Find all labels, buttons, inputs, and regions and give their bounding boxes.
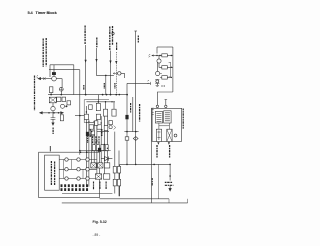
wire R2 to bus	[51, 91, 61, 95]
wire row1	[154, 55, 162, 57]
contact row 2 wire	[59, 168, 96, 170]
resistor R2	[49, 87, 53, 93]
page title	[28, 10, 57, 15]
wire Q1 emitter drop	[61, 79, 63, 87]
wire relay stub 2	[165, 100, 168, 106]
bus right horizontal H8	[120, 163, 170, 165]
switch box X2	[98, 163, 103, 168]
wire V158 drop	[158, 164, 160, 198]
resistor pair boxes top	[113, 166, 116, 173]
timer IC label	[51, 161, 54, 185]
wire Q2 top	[52, 103, 54, 107]
node AC input marks	[37, 75, 38, 78]
relay contact box 1	[156, 129, 161, 141]
component small box on Va lower	[125, 137, 129, 140]
tick above timer box	[49, 146, 51, 151]
contact row 1 wire	[59, 159, 96, 161]
resistor R1 above Q1	[52, 72, 56, 75]
junction dot link	[79, 115, 81, 117]
junction dots row1	[156, 55, 172, 56]
label below arrow	[52, 128, 54, 135]
relay contact 2 marks	[167, 129, 172, 141]
relay bottom arrows	[157, 142, 170, 145]
resistor pair box top b	[117, 166, 120, 173]
node tick 1TB top	[134, 30, 137, 32]
junction dot row wire	[79, 150, 81, 152]
resistor pair box bottom b	[117, 179, 120, 186]
component box 3	[91, 131, 94, 136]
transistor Q2	[51, 106, 55, 110]
wire cluster link	[75, 115, 84, 117]
ground dots	[161, 85, 164, 86]
wire Q4 right	[160, 74, 162, 78]
top right circuit: top wire	[157, 46, 173, 48]
wire input horizontal	[40, 78, 52, 80]
wire row1 right	[167, 55, 173, 57]
wire to Q3	[158, 56, 160, 59]
wire R11 right	[167, 66, 173, 68]
test point circle TP1	[118, 72, 121, 75]
cluster labels	[90, 130, 99, 145]
resistor row above timer box r1	[92, 145, 95, 151]
wire trigger drop	[110, 51, 112, 95]
arrow on green led wire	[95, 59, 97, 62]
resistor pair boxes bottom	[113, 179, 116, 186]
wire hook to relay box	[157, 92, 173, 105]
wire test drop dashed	[115, 52, 117, 95]
extra cluster dots	[88, 121, 108, 149]
connector pins row 1	[61, 184, 89, 187]
resistor row r3	[101, 145, 104, 151]
resistor R11	[162, 66, 168, 69]
label at 1TB top	[137, 36, 139, 43]
wire H8 left drop	[119, 164, 121, 196]
relay box edge ticks	[152, 110, 154, 115]
wire TP1 right	[121, 73, 125, 78]
label TIMER SW	[169, 145, 171, 158]
switch X on input wire	[43, 77, 46, 80]
junction dot GY	[169, 175, 171, 177]
wire D2 leads	[101, 158, 112, 160]
node label GREEN LED	[96, 38, 98, 48]
bottom wire L4	[62, 193, 112, 195]
middle cluster resistor Rd	[84, 114, 88, 119]
relay contact box 2	[167, 129, 172, 141]
switch box X1	[91, 163, 96, 168]
capacitor C1 plates	[155, 79, 159, 83]
wire top box left vertical	[49, 65, 51, 77]
bottom long line L3	[62, 202, 188, 204]
component on Va	[125, 115, 128, 119]
wire Vb vertical	[132, 97, 134, 132]
relay contact 1 marks	[157, 131, 160, 141]
node marks right feed end	[148, 80, 151, 85]
wire R12 right	[167, 76, 171, 78]
arrow row1	[151, 55, 153, 57]
extra junction dots cluster	[86, 101, 115, 124]
wire C2 down	[52, 119, 54, 124]
switch X SW1	[49, 97, 56, 103]
wire TP1 left arrow	[113, 73, 117, 75]
bottom wire L2	[100, 198, 170, 200]
middle cluster resistor Re	[96, 114, 100, 119]
page number	[93, 233, 101, 237]
arrowed line left mid	[40, 112, 64, 114]
wire cluster stub a	[97, 95, 99, 104]
wire cluster stub c	[113, 102, 115, 109]
wire 1TB vertical	[135, 31, 137, 164]
switch X2 cross	[98, 163, 103, 168]
component diamond on 1TB line	[133, 137, 138, 141]
capacitor C1	[156, 80, 159, 83]
right pair wires	[115, 132, 119, 197]
component small C	[67, 101, 71, 105]
middle cluster resistor Rb	[103, 109, 107, 116]
junction dot bend	[105, 75, 107, 77]
wire upper horizontal	[49, 69, 80, 71]
resistor R12	[162, 76, 168, 79]
transistor Q4	[156, 71, 160, 75]
diode D2	[105, 157, 109, 161]
connector pins row 2	[61, 188, 89, 191]
junction dots right column	[171, 67, 172, 79]
node label TRIGGER PULSE	[110, 26, 113, 50]
junction dots on main bus	[50, 94, 128, 96]
wire cluster mid link	[86, 121, 97, 123]
wire right edge vertical V6	[172, 47, 174, 92]
bus main horizontal	[48, 94, 128, 96]
switch X1 cross	[91, 163, 96, 168]
relay box	[152, 108, 182, 141]
figure caption	[93, 220, 107, 224]
relay inner coil 1	[155, 112, 162, 124]
wire bend to Va	[105, 75, 107, 94]
label relay right	[182, 109, 184, 130]
wire Q3 to R11	[159, 63, 162, 67]
switch box X3	[104, 163, 109, 168]
switch box X4	[95, 174, 101, 179]
wire top box right vertical	[73, 65, 75, 95]
arrow on trigger wire	[109, 61, 111, 64]
contact row 3 circles	[65, 177, 89, 180]
switch X4 cross	[95, 174, 101, 179]
node label CONSTANT VOLTAGE	[84, 26, 86, 45]
label TB 12V	[139, 104, 141, 122]
arrow left end	[40, 112, 43, 114]
transistor Q1	[52, 76, 57, 81]
contact row 2 circles	[65, 168, 89, 171]
component pair box B	[62, 97, 66, 101]
resistor row r2	[97, 145, 100, 151]
node input marks row1	[149, 54, 151, 57]
wire right feed horizontal	[127, 82, 151, 84]
switch box SW1	[49, 97, 56, 103]
label 2TB	[103, 83, 105, 89]
wire Q1 emitter right	[56, 78, 62, 80]
label timer drive	[130, 103, 132, 113]
junction dots H8	[126, 164, 171, 166]
timer IC box	[39, 152, 100, 197]
component box E	[60, 115, 63, 121]
timer IC inner box	[45, 155, 60, 190]
wire cluster left vert	[85, 106, 87, 187]
arrow right end	[61, 112, 64, 114]
junction dots H5	[98, 101, 113, 102]
extra cluster density	[86, 121, 109, 143]
relay coil link wires	[159, 123, 170, 129]
relay coil 2 marks	[165, 113, 170, 121]
relay terminal circles	[156, 105, 167, 107]
middle cluster resistor Rc	[112, 109, 116, 116]
bottom right vertical	[169, 199, 188, 203]
junction dots H7	[126, 131, 136, 133]
wire top box horizontal	[50, 64, 74, 66]
label relay side	[151, 178, 153, 186]
wire long vertical to timer box	[79, 70, 81, 155]
transistor Q3	[157, 59, 161, 63]
arrow GY down	[169, 185, 171, 191]
wire under row	[80, 150, 111, 152]
bracket right	[169, 62, 171, 77]
relay circle	[174, 134, 177, 137]
wire cluster stub b	[105, 102, 107, 109]
component small box 2	[97, 125, 101, 129]
label TIMER MOTOR	[156, 145, 158, 158]
relay coil 1 marks	[157, 114, 162, 122]
wire Va vertical	[126, 83, 128, 164]
wire long left vertical	[151, 108, 154, 203]
label 3TB	[114, 83, 116, 89]
junction dots arrowed line	[48, 112, 59, 114]
wire Q1 collector up	[53, 65, 55, 77]
label GY 12V	[165, 182, 174, 185]
node circle on trigger label	[112, 32, 114, 34]
contact row 1 circles	[65, 158, 89, 161]
arrow down output	[52, 123, 54, 125]
switch box X5	[103, 174, 109, 179]
wire C1 bottom	[156, 83, 158, 85]
wire GY stub	[169, 164, 171, 180]
wire Q2 bottom	[52, 111, 54, 118]
node label READY input	[43, 38, 46, 67]
contact row 3 wire	[59, 178, 96, 180]
node label TEST	[116, 43, 118, 51]
component pair box A	[57, 97, 61, 101]
extra cluster parts	[89, 105, 116, 130]
middle cluster resistor Ra	[96, 103, 100, 110]
relay inner coil 2	[164, 111, 171, 123]
wire constant voltage drop	[85, 45, 87, 95]
contact row vertical links	[64, 160, 84, 179]
wire Q3 to Q4	[156, 62, 158, 71]
bottom labels	[94, 182, 107, 191]
resistor R10	[162, 54, 168, 57]
dark blob on row	[98, 148, 101, 152]
label 1TB	[83, 85, 85, 90]
junction dots timer box top	[80, 151, 88, 153]
arrow input left	[38, 78, 41, 80]
capacitor C2 plates	[51, 118, 56, 120]
component small boxes row	[89, 125, 93, 129]
node label left margin instructions	[34, 76, 36, 111]
wire connector horizontal H7	[124, 131, 138, 133]
wire circuit left vertical	[156, 47, 158, 54]
arrow on test wire	[115, 61, 117, 64]
cluster outline	[84, 100, 109, 123]
wire short H5	[86, 101, 113, 103]
transistor Q5	[61, 104, 68, 108]
node D1 cross	[59, 87, 63, 91]
diode D1 circle	[59, 87, 63, 91]
resistor row r4	[105, 145, 108, 151]
wire cluster verts	[89, 116, 108, 187]
wire green led drop	[97, 48, 114, 75]
ground C1	[156, 86, 159, 87]
arrow on constant voltage wire	[85, 60, 87, 63]
